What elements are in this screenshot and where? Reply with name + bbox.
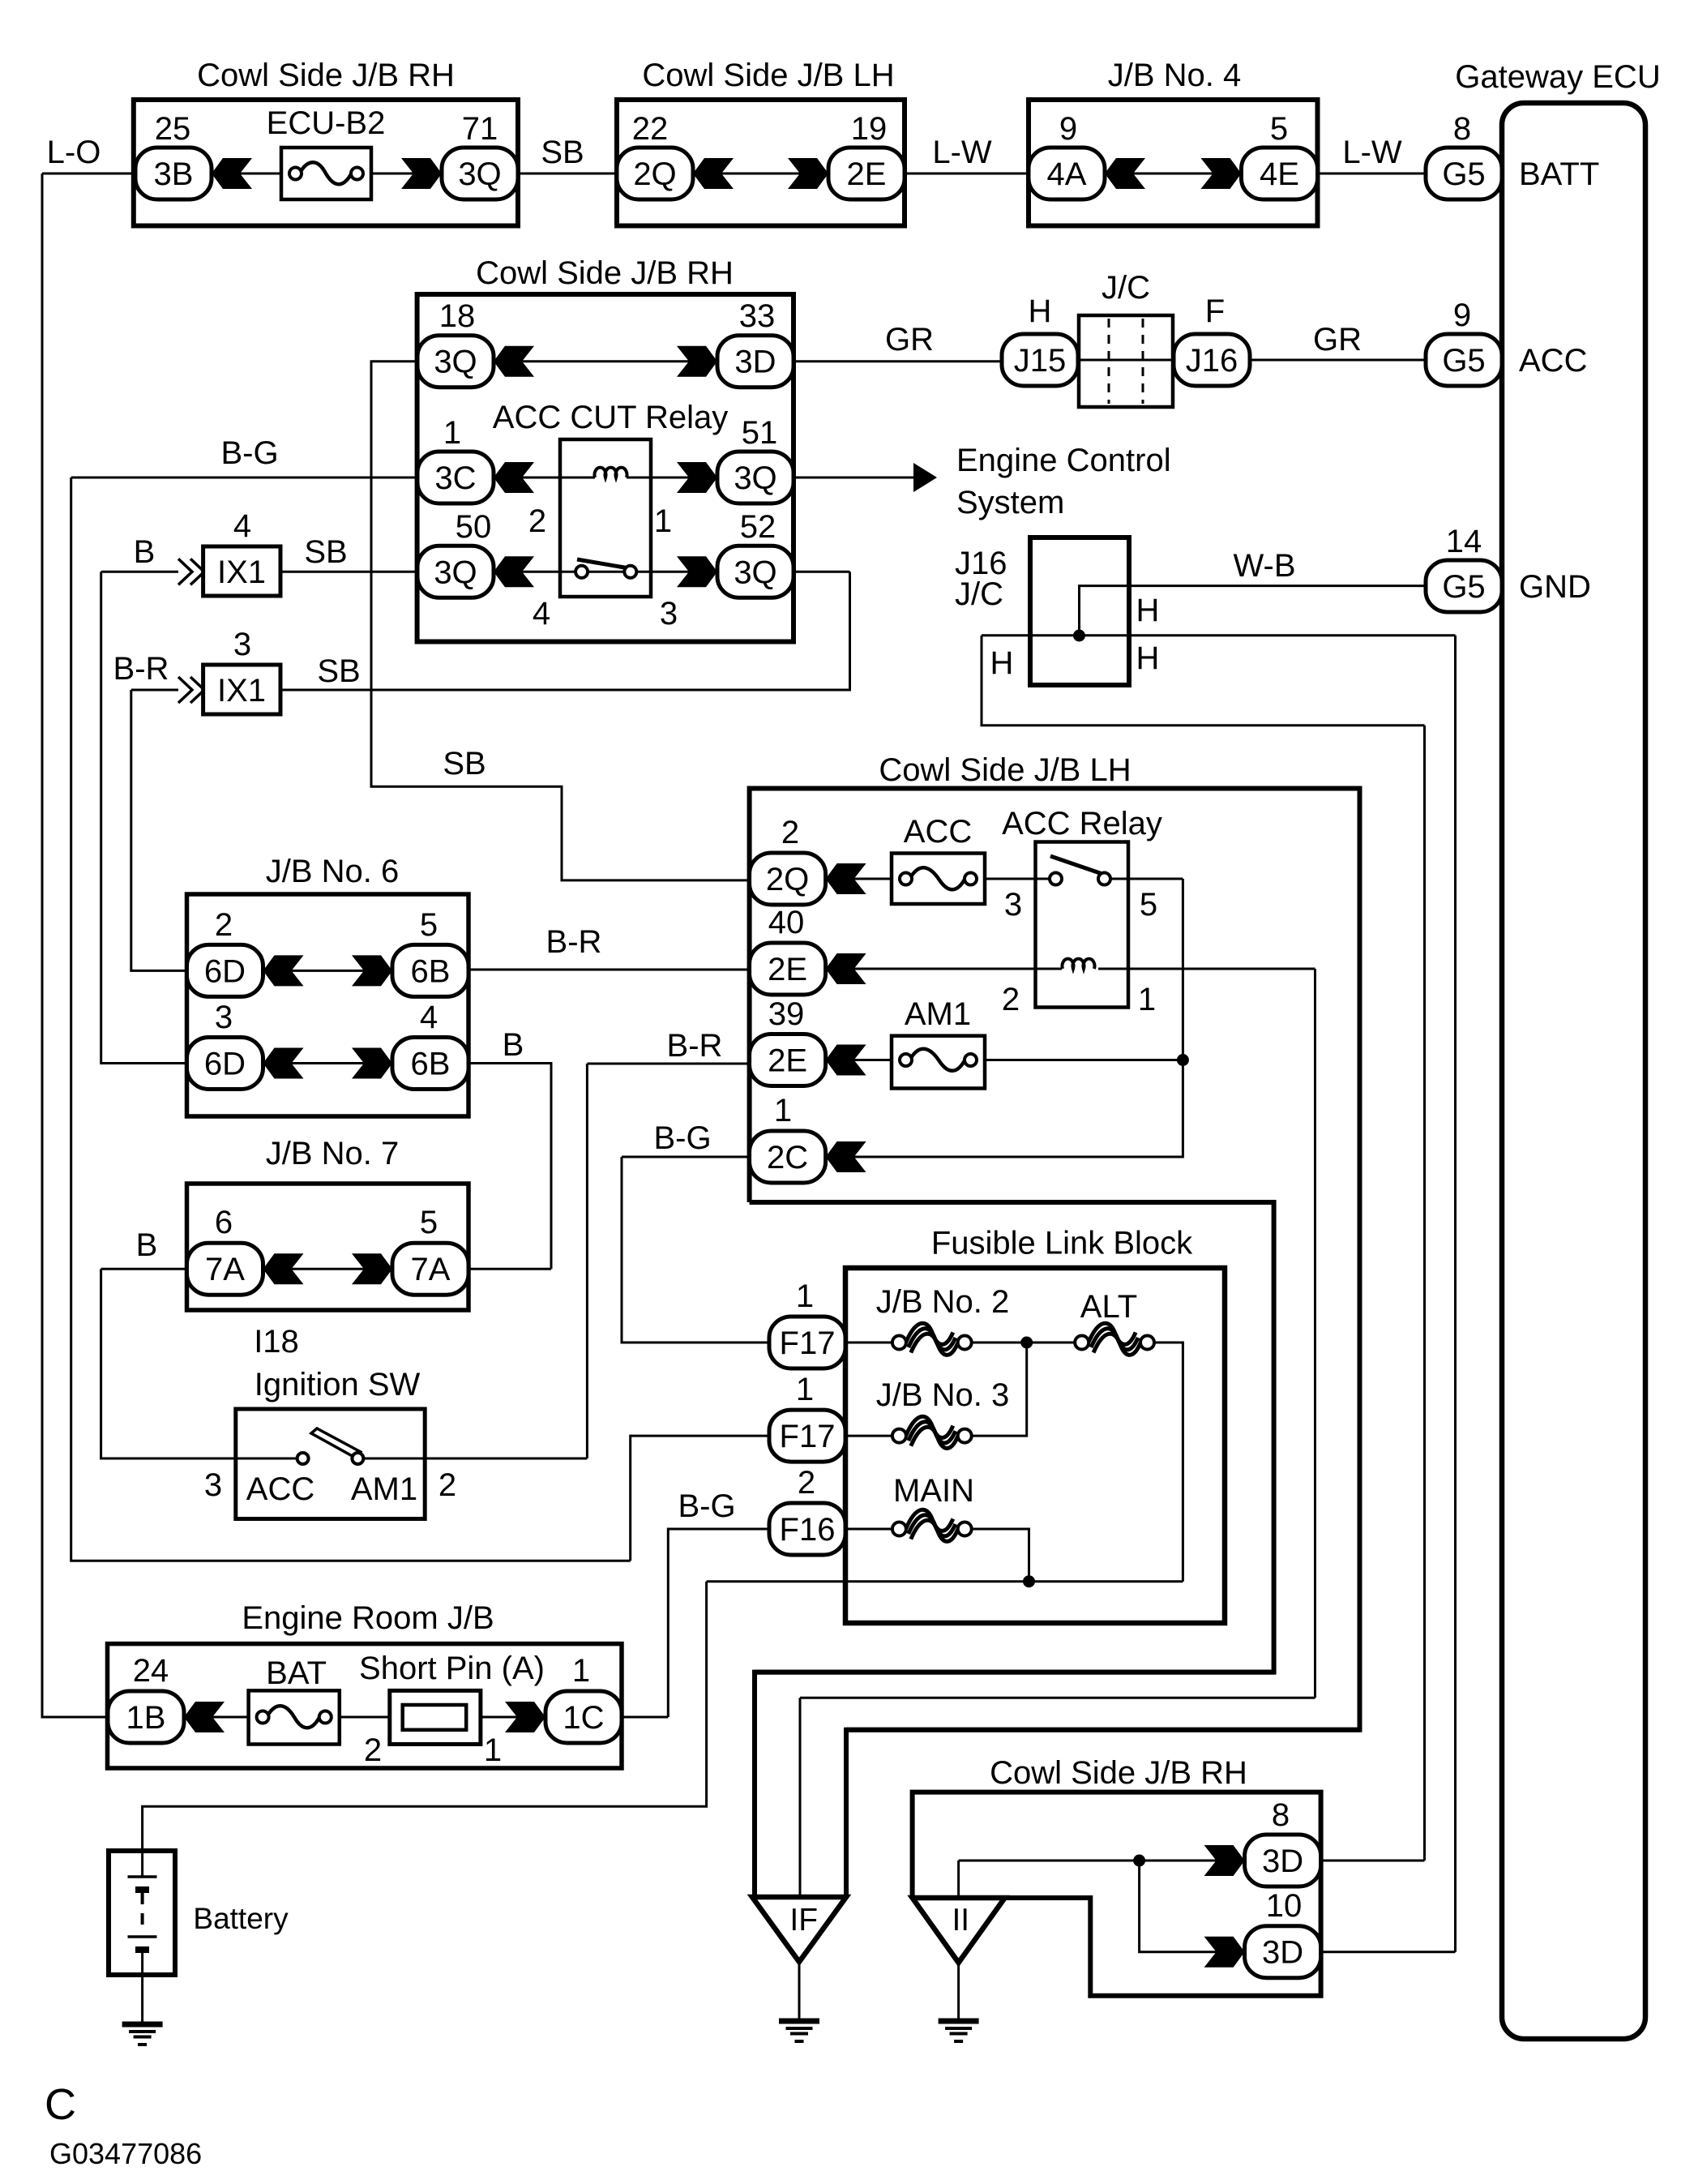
wire 2Q to fuse ACC xyxy=(826,878,892,880)
svg-text:3: 3 xyxy=(233,627,251,662)
svg-text:2: 2 xyxy=(438,1467,456,1503)
ACC CUT Relay switch contacts xyxy=(575,559,636,578)
fuse AM1 xyxy=(892,1036,985,1089)
svg-text:1: 1 xyxy=(654,503,672,539)
svg-text:2C: 2C xyxy=(767,1140,808,1176)
wire B-G 2C to F17 xyxy=(622,1157,769,1343)
svg-text:22: 22 xyxy=(632,111,669,147)
battery xyxy=(109,1851,175,1975)
svg-text:I18: I18 xyxy=(254,1324,299,1360)
svg-text:4: 4 xyxy=(420,1000,438,1035)
wire 3D8 right xyxy=(1321,1860,1425,1862)
wire II to 3D8 line xyxy=(957,1861,960,1898)
svg-text:2E: 2E xyxy=(768,952,807,987)
svg-text:3: 3 xyxy=(204,1467,222,1503)
box Cowl Side J/B RH (bottom) xyxy=(913,1792,1321,1996)
box J/B No. 4 xyxy=(1029,100,1318,226)
wire link J/B No.2 to ALT xyxy=(972,1342,1076,1344)
relay ACC Relay box xyxy=(1036,842,1129,1008)
svg-text:II: II xyxy=(952,1903,969,1938)
wire B 6B4 down to 7A5 xyxy=(468,1064,551,1270)
wire to Engine Control System xyxy=(794,477,913,479)
svg-text:5: 5 xyxy=(420,1205,438,1240)
svg-text:1: 1 xyxy=(572,1653,590,1689)
svg-text:1: 1 xyxy=(1138,982,1156,1017)
svg-text:40: 40 xyxy=(768,905,805,940)
wire B-G F17b left xyxy=(631,1436,769,1561)
connector 3Q pin 71 xyxy=(442,148,518,199)
fuse ECU-B2 xyxy=(281,148,371,199)
svg-text:GR: GR xyxy=(885,322,934,358)
svg-text:39: 39 xyxy=(768,996,805,1032)
chevron connector arrow (left) xyxy=(1105,158,1145,189)
svg-text:System: System xyxy=(956,485,1064,520)
wire H through J16 J/C xyxy=(982,634,1456,636)
svg-text:L-W: L-W xyxy=(932,135,992,170)
junction connector J15 xyxy=(1002,334,1078,386)
svg-text:AM1: AM1 xyxy=(905,996,971,1032)
wire B-R vertical to 6D2 xyxy=(131,690,187,970)
wire 2E39 to fuse AM1 xyxy=(826,1059,892,1061)
chevron connector arrow (right) xyxy=(1204,1845,1245,1876)
svg-text:J/B No. 7: J/B No. 7 xyxy=(266,1136,400,1171)
svg-text:J/B No. 3: J/B No. 3 xyxy=(876,1377,1010,1413)
connector 3C xyxy=(417,452,494,503)
svg-text:9: 9 xyxy=(1059,111,1077,147)
svg-text:B: B xyxy=(134,534,156,570)
wire battery positive line xyxy=(143,1582,707,1851)
svg-text:6: 6 xyxy=(215,1205,233,1240)
connector 3Q pin 50 xyxy=(417,546,494,597)
box J/B No. 7 xyxy=(187,1184,469,1310)
wire 1B to fuse BAT xyxy=(184,1716,249,1719)
svg-text:2E: 2E xyxy=(768,1043,807,1079)
svg-text:5: 5 xyxy=(1140,887,1157,923)
svg-text:H: H xyxy=(1029,293,1052,329)
wire battery to ground xyxy=(141,1975,143,2022)
wire 3B to fuse ECU-B2 xyxy=(212,173,281,175)
connector 2E pin 40 xyxy=(750,943,826,995)
connector 4E xyxy=(1242,148,1318,199)
chevron connector arrow (left) xyxy=(826,863,866,894)
wire 6D3 to 6B4 xyxy=(263,1062,393,1064)
svg-text:1: 1 xyxy=(443,415,461,451)
connector 2C xyxy=(750,1131,826,1183)
wire SB 3Q18 to 2Q xyxy=(371,362,750,880)
svg-text:G5: G5 xyxy=(1442,343,1485,379)
svg-text:25: 25 xyxy=(155,111,191,147)
svg-text:J/C: J/C xyxy=(955,576,1003,612)
svg-text:2: 2 xyxy=(1002,982,1020,1017)
chevron connector arrow (right) xyxy=(401,158,442,189)
svg-text:J16: J16 xyxy=(1186,343,1238,379)
svg-text:1: 1 xyxy=(484,1732,502,1768)
IF funnel triangle xyxy=(752,1897,846,1962)
svg-text:L-W: L-W xyxy=(1342,135,1402,170)
svg-text:GR: GR xyxy=(1313,322,1362,358)
svg-text:SB: SB xyxy=(443,746,486,782)
connector 3B xyxy=(135,148,212,199)
svg-text:8: 8 xyxy=(1272,1797,1290,1833)
chevron connector arrow (left) xyxy=(826,1141,866,1172)
svg-text:24: 24 xyxy=(133,1653,169,1689)
box Cowl Side J/B LH (big, with tails to IF funnel) xyxy=(750,789,1360,1898)
wire SB IX1-3 to 3Q52 xyxy=(280,572,850,690)
svg-text:7A: 7A xyxy=(411,1252,451,1287)
wire B-G vertical from 3C xyxy=(71,477,631,1561)
wire 2E40 to relay coil xyxy=(826,968,1062,970)
chevron connector arrow (right) xyxy=(677,346,717,377)
wire ignition AM1 right xyxy=(364,1458,587,1460)
svg-text:J/C: J/C xyxy=(1102,270,1150,306)
wire relay pin5 to 2C xyxy=(826,879,1183,1157)
svg-text:3D: 3D xyxy=(734,345,776,380)
connector F16 xyxy=(769,1503,845,1555)
wire II to ground xyxy=(957,1963,960,2019)
svg-text:1: 1 xyxy=(796,1372,814,1407)
svg-text:3: 3 xyxy=(660,596,678,632)
svg-text:2: 2 xyxy=(215,907,233,943)
wire B-R 6B5 to 2E40 xyxy=(468,969,750,971)
wire F17a to link J/B No.2 xyxy=(845,1342,892,1344)
svg-text:MAIN: MAIN xyxy=(893,1473,974,1509)
connector 6D pin 3 xyxy=(187,1038,263,1090)
connector 7A pin 6 xyxy=(187,1243,263,1295)
svg-text:3Q: 3Q xyxy=(434,555,477,590)
chevron connector arrow (left) xyxy=(212,158,252,189)
svg-text:ACC CUT Relay: ACC CUT Relay xyxy=(493,400,728,435)
svg-text:B-G: B-G xyxy=(678,1488,735,1524)
box Ignition SW xyxy=(236,1409,425,1519)
connector 2Q pin 22 xyxy=(617,148,693,199)
double chevron (in-line connector) xyxy=(178,677,204,703)
svg-text:2: 2 xyxy=(781,815,799,850)
wire fuse ACC to relay xyxy=(985,878,1036,880)
wire 7A5 right xyxy=(468,1268,551,1270)
svg-text:F: F xyxy=(1205,293,1225,329)
wire short pin to 1C xyxy=(481,1716,545,1719)
svg-text:50: 50 xyxy=(456,509,492,545)
wire B-R down to ignition AM1 xyxy=(586,1064,588,1458)
wire thick LH box to IF left xyxy=(755,1670,1274,1675)
svg-text:Short Pin (A): Short Pin (A) xyxy=(359,1651,545,1686)
ground (IF) xyxy=(779,2021,819,2041)
connector 6B pin 4 xyxy=(392,1038,468,1090)
svg-text:3: 3 xyxy=(215,1000,233,1035)
svg-text:4E: 4E xyxy=(1260,156,1299,192)
wire L-O down to 1B xyxy=(42,173,108,1717)
connector 1B xyxy=(108,1691,184,1743)
wire 4A to 4E xyxy=(1105,173,1242,175)
connector 3Q pin 51 xyxy=(717,452,794,503)
chevron connector arrow (right) xyxy=(352,1253,392,1284)
ACC Relay coil xyxy=(1063,959,1095,969)
wire ALT down xyxy=(1154,1343,1183,1582)
connector F17 pin 1 (J/B No.2) xyxy=(769,1317,845,1368)
wire fuse ECU-B2 to 3Q xyxy=(371,173,442,175)
wire F16 to link MAIN xyxy=(845,1528,892,1531)
svg-text:J/B No. 4: J/B No. 4 xyxy=(1108,58,1242,93)
wire to 3D8 xyxy=(959,1860,1245,1862)
svg-text:3D: 3D xyxy=(1262,1844,1303,1879)
II funnel triangle xyxy=(913,1898,1005,1963)
wire relay coil down to IF xyxy=(1314,969,1316,1698)
svg-text:4: 4 xyxy=(233,508,251,544)
wire B vertical to 6D3 xyxy=(101,572,187,1063)
double chevron (in-line connector) xyxy=(178,559,204,585)
svg-text:G5: G5 xyxy=(1442,156,1485,192)
svg-text:ACC Relay: ACC Relay xyxy=(1002,806,1162,841)
svg-text:7A: 7A xyxy=(205,1252,245,1287)
svg-text:6B: 6B xyxy=(411,1047,451,1082)
svg-text:SB: SB xyxy=(541,135,584,170)
chevron connector arrow (right) xyxy=(677,462,717,493)
wire 3C to relay coil xyxy=(494,477,595,479)
svg-text:F17: F17 xyxy=(780,1419,836,1454)
connector 2E pin 39 xyxy=(750,1034,826,1086)
svg-text:1B: 1B xyxy=(126,1700,166,1736)
box Cowl Side J/B LH (top) xyxy=(617,100,905,226)
wire SB IX1-4 to 3Q50 xyxy=(280,571,417,573)
chevron connector arrow (right) xyxy=(788,158,828,189)
box Gateway ECU xyxy=(1502,103,1645,2039)
svg-text:3: 3 xyxy=(1004,887,1022,923)
svg-text:ACC: ACC xyxy=(246,1471,314,1507)
svg-text:IX1: IX1 xyxy=(217,673,266,709)
box Cowl Side J/B RH (second) xyxy=(417,294,794,642)
wire relay coil to 3Q51 xyxy=(627,477,717,479)
connector IX1 pin 3 xyxy=(203,665,280,714)
ACC Relay switch contacts xyxy=(1050,856,1110,885)
wire fusible output to battery line xyxy=(707,1580,1183,1582)
svg-text:Cowl Side J/B RH: Cowl Side J/B RH xyxy=(197,58,455,93)
svg-text:SB: SB xyxy=(304,534,347,570)
svg-text:4: 4 xyxy=(533,596,550,632)
svg-text:52: 52 xyxy=(740,509,776,545)
svg-text:6D: 6D xyxy=(204,953,246,989)
wire 3D10 right xyxy=(1321,1951,1456,1953)
junction dot 3D8/3D10 xyxy=(1133,1855,1145,1867)
svg-text:F17: F17 xyxy=(780,1325,836,1361)
arrowhead to Engine Control System xyxy=(913,463,937,492)
wire L-W 2E to 4A xyxy=(905,173,1029,175)
svg-text:Cowl Side J/B RH: Cowl Side J/B RH xyxy=(990,1755,1247,1791)
junction connector J16 xyxy=(1174,334,1250,386)
chevron connector arrow (right) xyxy=(352,955,392,986)
svg-text:3Q: 3Q xyxy=(734,460,776,496)
svg-text:B-R: B-R xyxy=(667,1028,723,1064)
wire B-G from 3C xyxy=(71,477,417,479)
svg-text:J15: J15 xyxy=(1014,343,1067,379)
short pin (A) xyxy=(390,1690,481,1744)
svg-text:2: 2 xyxy=(798,1465,815,1501)
box J/B No. 6 xyxy=(187,894,469,1116)
svg-text:Ignition SW: Ignition SW xyxy=(255,1367,421,1402)
connector 3Q pin 18 xyxy=(417,336,494,388)
chevron connector arrow (right) xyxy=(677,556,717,587)
connector 1C xyxy=(545,1691,622,1743)
svg-text:Engine Room J/B: Engine Room J/B xyxy=(242,1600,494,1636)
svg-text:6D: 6D xyxy=(204,1047,246,1082)
wire IF to ground xyxy=(798,1962,801,2019)
svg-text:H: H xyxy=(1136,593,1160,628)
svg-text:GND: GND xyxy=(1519,569,1591,605)
fusible link J/B No. 2 xyxy=(892,1323,972,1355)
junction dot J/B No.2 out xyxy=(1020,1337,1033,1349)
wire B-R to IX1-3 xyxy=(131,689,178,692)
wire relay coil to IF line xyxy=(1098,968,1315,970)
box Engine Room J/B xyxy=(108,1644,622,1768)
svg-text:33: 33 xyxy=(739,298,776,334)
chevron connector arrow (right) xyxy=(1201,158,1242,189)
connector 6D pin 2 xyxy=(187,944,263,996)
connector IX1 pin 4 xyxy=(203,546,280,596)
wire 2Q to 2E xyxy=(693,173,828,175)
svg-text:BATT: BATT xyxy=(1519,156,1599,192)
junction dot AM1/relay xyxy=(1177,1054,1189,1066)
svg-text:71: 71 xyxy=(462,111,498,147)
svg-text:10: 10 xyxy=(1266,1888,1303,1924)
svg-text:3Q: 3Q xyxy=(434,345,477,380)
wire SB 3Q to 2Q xyxy=(518,173,617,175)
relay ACC CUT Relay box xyxy=(560,439,651,597)
ground (II) xyxy=(939,2021,979,2041)
junction block J16 J/C xyxy=(1030,537,1129,685)
svg-text:3D: 3D xyxy=(1262,1935,1303,1971)
wire GR J16 to G5 ACC xyxy=(1250,359,1426,362)
fusible link J/B No. 3 xyxy=(892,1416,972,1448)
svg-text:1: 1 xyxy=(796,1278,814,1314)
svg-text:C: C xyxy=(45,2080,76,2129)
wire link MAIN down xyxy=(972,1529,1029,1582)
wire B to IX1-4 xyxy=(101,571,204,573)
svg-text:14: 14 xyxy=(1446,524,1482,559)
svg-text:Cowl Side J/B RH: Cowl Side J/B RH xyxy=(476,255,734,291)
svg-text:G5: G5 xyxy=(1442,569,1485,605)
chevron connector arrow (right) xyxy=(505,1702,545,1732)
wire L-O into 3B xyxy=(42,173,135,175)
svg-text:L-O: L-O xyxy=(47,135,101,170)
wire IF middle down xyxy=(799,1698,802,1897)
wire thick LH right edge to IF right xyxy=(846,1728,1360,1732)
svg-text:B: B xyxy=(136,1227,158,1263)
wire B-G F16 to 1C xyxy=(668,1529,769,1717)
chevron connector arrow (left) xyxy=(494,462,534,493)
wire H to 3D8 xyxy=(1423,726,1426,1861)
wire down to ignition ACC xyxy=(101,1269,297,1458)
wire branch to 3D10 xyxy=(1140,1861,1245,1952)
svg-text:B-G: B-G xyxy=(653,1120,711,1156)
chevron connector arrow (left) xyxy=(826,953,866,984)
svg-text:Cowl Side J/B LH: Cowl Side J/B LH xyxy=(879,752,1131,788)
svg-text:2: 2 xyxy=(364,1732,382,1768)
svg-text:ACC: ACC xyxy=(904,814,972,850)
connector 3Q pin 52 xyxy=(717,546,794,597)
wire through J/C xyxy=(1078,359,1173,362)
connector 3D pin 8 xyxy=(1245,1835,1321,1886)
svg-text:1C: 1C xyxy=(563,1700,604,1736)
svg-text:6B: 6B xyxy=(411,953,451,989)
svg-text:B: B xyxy=(503,1027,524,1063)
wire 3Q18 to 3D33 xyxy=(494,360,717,362)
svg-text:51: 51 xyxy=(742,415,778,451)
chevron connector arrow (left) xyxy=(494,556,534,587)
svg-text:B-G: B-G xyxy=(220,435,278,471)
svg-text:AM1: AM1 xyxy=(351,1471,417,1507)
Ignition SW contacts and blade xyxy=(297,1428,364,1464)
svg-text:1: 1 xyxy=(774,1093,792,1128)
wire relay coil to IF middle xyxy=(800,1697,1315,1699)
connector G5 pin 14 GND xyxy=(1426,560,1502,612)
chevron connector arrow (right) xyxy=(352,1048,392,1079)
svg-text:H: H xyxy=(990,645,1014,681)
chevron connector arrow (left) xyxy=(826,1045,866,1076)
connector 6B pin 5 xyxy=(392,944,468,996)
svg-text:Engine Control: Engine Control xyxy=(956,443,1171,478)
wire 6D2 to 6B5 xyxy=(263,970,393,972)
svg-text:8: 8 xyxy=(1453,111,1471,147)
connector 3D pin 10 xyxy=(1245,1926,1321,1978)
wire F17b to link J/B No.3 xyxy=(845,1435,892,1437)
wire L-W 4E to G5 BATT xyxy=(1318,173,1427,175)
wire B-R 2E39 left xyxy=(587,1063,749,1065)
box Cowl Side J/B LH bottom edge and tail to IF funnel xyxy=(750,1202,1274,1897)
chevron connector arrow (left) xyxy=(263,955,304,986)
connector 4A xyxy=(1029,148,1105,199)
wire W-B to G5 GND xyxy=(1080,586,1427,636)
ground (battery) xyxy=(122,2024,163,2045)
svg-text:5: 5 xyxy=(1270,111,1288,147)
wire 3Q50 to 3Q52 xyxy=(494,571,717,573)
svg-text:F16: F16 xyxy=(780,1512,836,1548)
wire link J/B No.3 up xyxy=(972,1343,1027,1436)
svg-text:ALT: ALT xyxy=(1080,1289,1137,1325)
chevron connector arrow (left) xyxy=(693,158,734,189)
wire 3Q52 right xyxy=(794,571,850,573)
svg-text:3Q: 3Q xyxy=(734,555,776,590)
svg-text:ECU-B2: ECU-B2 xyxy=(267,105,386,141)
svg-text:Cowl Side J/B LH: Cowl Side J/B LH xyxy=(642,58,894,93)
wire 1C right xyxy=(622,1716,668,1719)
svg-text:Fusible Link Block: Fusible Link Block xyxy=(931,1226,1193,1261)
wire GR 3D to J15 xyxy=(794,360,1002,362)
junction dot in J16 J/C xyxy=(1073,630,1085,642)
svg-text:W-B: W-B xyxy=(1233,548,1295,584)
svg-text:4A: 4A xyxy=(1047,156,1087,192)
wire H lower xyxy=(982,636,1425,726)
svg-text:2: 2 xyxy=(528,503,546,539)
svg-text:2Q: 2Q xyxy=(766,862,809,897)
box Cowl Side J/B RH (top) xyxy=(134,100,518,226)
svg-text:9: 9 xyxy=(1453,298,1471,333)
svg-text:3B: 3B xyxy=(154,156,194,192)
svg-text:Battery: Battery xyxy=(193,1902,289,1935)
chevron connector arrow (left) xyxy=(184,1702,225,1732)
svg-text:ACC: ACC xyxy=(1519,343,1587,379)
fuse BAT xyxy=(249,1690,340,1744)
chevron connector arrow (left) xyxy=(494,346,534,377)
chevron connector arrow (right) xyxy=(1204,1937,1245,1968)
svg-text:J/B No. 2: J/B No. 2 xyxy=(876,1284,1010,1320)
ACC CUT Relay coil xyxy=(595,468,627,477)
svg-text:B-R: B-R xyxy=(546,924,602,960)
chevron connector arrow (left) xyxy=(263,1253,304,1284)
fusible link MAIN xyxy=(892,1510,972,1541)
connector G5 pin 9 ACC xyxy=(1426,334,1502,386)
wire 7A6 to 7A5 xyxy=(263,1268,393,1270)
svg-text:3C: 3C xyxy=(434,460,476,496)
connector 2Q pin 2 xyxy=(750,853,826,905)
